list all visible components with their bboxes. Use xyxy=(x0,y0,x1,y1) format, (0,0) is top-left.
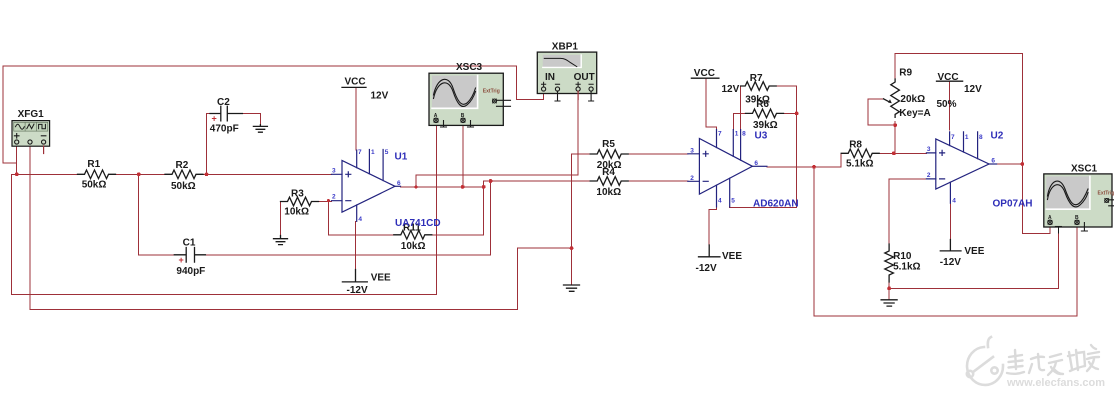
svg-text:7: 7 xyxy=(951,134,955,141)
node U3 output corner R8 xyxy=(812,165,816,169)
svg-text:-12V: -12V xyxy=(940,257,961,268)
wire R9 pot bottom to R8 row xyxy=(894,122,896,154)
XFG1 minus mark xyxy=(41,135,46,137)
wire XSC1 A+ stub down to U2 output row xyxy=(1049,225,1051,234)
wire R11 right up to output node xyxy=(432,187,484,235)
node ground junction mid xyxy=(570,246,574,250)
svg-text:VEE: VEE xyxy=(722,251,742,262)
wire U1 output to feedback tap xyxy=(401,186,484,188)
XFG1 minus terminal stub xyxy=(43,146,45,154)
op-amp U1 plus minus marks xyxy=(346,172,351,201)
resistor R10 5.1k vertical xyxy=(885,244,894,282)
wire C1 right to R4 line riser xyxy=(205,181,490,255)
svg-text:1: 1 xyxy=(735,131,739,138)
node R10 bottom junction xyxy=(887,286,891,290)
svg-text:VCC: VCC xyxy=(694,68,715,79)
XSC1 screen sine trace xyxy=(1048,181,1089,205)
ground mid at R5 riser xyxy=(564,285,580,291)
op-amp U2 input stubs xyxy=(926,153,935,179)
svg-text:AD620AN: AD620AN xyxy=(753,199,799,210)
svg-text:R2: R2 xyxy=(176,160,189,171)
wire input node branch to XSC3 channel A xyxy=(12,123,437,295)
svg-text:4: 4 xyxy=(358,216,362,223)
watermark elecfans logo circle xyxy=(967,337,1003,385)
svg-text:940pF: 940pF xyxy=(176,266,205,277)
wire R10 bottom to ground xyxy=(888,276,890,300)
wire XSC3 channel B down to U1 output xyxy=(462,123,464,187)
svg-text:5.1kΩ: 5.1kΩ xyxy=(846,159,873,170)
wire R5 left to ground riser xyxy=(572,154,591,285)
svg-text:-12V: -12V xyxy=(696,263,717,274)
svg-text:3: 3 xyxy=(332,167,336,174)
svg-text:3: 3 xyxy=(690,147,694,154)
svg-text:+: + xyxy=(212,114,217,124)
svg-text:-12V: -12V xyxy=(347,285,368,296)
svg-text:www.elecfans.com: www.elecfans.com xyxy=(1006,377,1105,389)
wire input node to R1 xyxy=(17,173,78,175)
op-amp U2 top pin stubs 7 1 8 xyxy=(950,132,978,159)
svg-text:10kΩ: 10kΩ xyxy=(596,187,621,198)
op-amp U3 plus minus marks xyxy=(703,151,708,181)
svg-text:U1: U1 xyxy=(395,152,408,163)
wire R7 right to RG riser xyxy=(776,86,796,208)
svg-text:50kΩ: 50kΩ xyxy=(82,179,107,190)
svg-text:ExtTrig: ExtTrig xyxy=(483,88,500,94)
potentiometer R9 20k vertical xyxy=(891,79,900,117)
XBP1 OUT- unconnected stub xyxy=(589,91,594,101)
resistor R6 39k xyxy=(746,109,784,118)
XSC1 channel A minus stub xyxy=(1055,226,1061,228)
svg-text:R7: R7 xyxy=(750,73,763,84)
VCC symbol U1 xyxy=(342,86,366,88)
svg-text:R8: R8 xyxy=(849,139,862,150)
svg-text:+: + xyxy=(179,255,184,265)
wire node A to R2 xyxy=(139,173,165,175)
svg-text:4: 4 xyxy=(952,198,956,205)
op-amp U3 top pin stubs 7 1 8 xyxy=(717,130,741,161)
svg-text:6: 6 xyxy=(991,158,995,165)
svg-text:C1: C1 xyxy=(183,238,196,249)
op-amp U3 AD620AN triangle xyxy=(699,139,752,195)
wire C2 right to ground xyxy=(242,114,260,125)
oscilloscope XSC1 box xyxy=(1044,174,1112,227)
svg-text:8: 8 xyxy=(979,134,983,141)
node A junction R1-R2-C1 xyxy=(137,172,141,176)
wire top rail from input node to XBP1 IN+ xyxy=(3,66,544,100)
svg-text:XSC3: XSC3 xyxy=(456,62,483,73)
ground for C2 xyxy=(253,125,267,132)
op-amp U1 bottom pin stub 4 xyxy=(356,205,358,221)
wire R8 left jog to U3 output corner xyxy=(814,153,841,167)
VEE symbol U3 xyxy=(699,245,720,257)
watermark chinese brand strokes xyxy=(1007,345,1099,375)
svg-text:XSC1: XSC1 xyxy=(1071,163,1098,174)
svg-text:20kΩ: 20kΩ xyxy=(900,94,925,105)
svg-text:R9: R9 xyxy=(899,68,912,79)
XFG1 triangle icon xyxy=(27,124,34,129)
resistor R8 5.1k xyxy=(841,149,879,158)
XSC3 screen sine trace xyxy=(434,79,476,104)
wire U1 VCC bar down to pin7 xyxy=(355,88,357,150)
wire R5 to U3 noninverting input xyxy=(628,153,688,155)
op-amp U2 output stub xyxy=(989,163,997,165)
svg-text:VEE: VEE xyxy=(371,273,391,284)
wire R6 right to RG riser xyxy=(784,112,797,114)
node U1 output to XSC3 B xyxy=(461,185,465,189)
resistor R11 10k feedback xyxy=(394,231,432,240)
wire U1 pin4 down to VEE bar xyxy=(355,221,357,269)
VCC symbol U3 xyxy=(691,77,719,79)
XFG1 terminals xyxy=(15,140,19,144)
node inverting tap U1 xyxy=(327,199,330,202)
svg-text:OP07AH: OP07AH xyxy=(993,199,1033,210)
op-amp U2 bottom pin stub 4 xyxy=(949,182,951,203)
wire XSC1 A- black stub xyxy=(1057,225,1059,234)
XSC1 channel B terminal xyxy=(1075,220,1079,224)
XFG1 square icon xyxy=(39,124,46,128)
svg-text:50kΩ: 50kΩ xyxy=(171,181,196,192)
wire R9 pot top lead xyxy=(894,54,896,79)
XSC3 channel A terminal xyxy=(434,118,438,122)
svg-text:12V: 12V xyxy=(964,84,982,95)
svg-text:UA741CD: UA741CD xyxy=(395,218,441,229)
op-amp U1 UA741CD triangle xyxy=(342,161,395,213)
op-amp U2 plus minus marks xyxy=(940,150,945,179)
wire R7 left down to U3 pin8 xyxy=(740,86,742,130)
svg-text:IN: IN xyxy=(545,72,555,83)
svg-text:U3: U3 xyxy=(755,130,768,141)
svg-text:B: B xyxy=(461,113,465,119)
svg-text:6: 6 xyxy=(397,180,401,187)
svg-text:1: 1 xyxy=(965,134,969,141)
XSC3 channel B terminal xyxy=(461,118,465,122)
capacitor C1 940pF xyxy=(174,248,205,263)
wire node A down to C1 left xyxy=(139,174,175,255)
wire XBP1 OUT+ down to output row xyxy=(577,100,579,176)
svg-text:5.1kΩ: 5.1kΩ xyxy=(893,262,920,273)
node R8 meets pot bottom xyxy=(892,151,896,155)
wire U2 pin4 down to VEE bar xyxy=(949,203,951,239)
svg-text:A: A xyxy=(434,113,438,119)
op-amp U1 input stubs xyxy=(332,174,343,200)
XFG1 plus mark xyxy=(14,134,19,139)
wire R3 right to U1 inverting input xyxy=(318,201,332,203)
svg-text:4: 4 xyxy=(718,198,722,205)
svg-text:6: 6 xyxy=(754,160,758,167)
op-amp U2 OP07AH triangle xyxy=(936,139,989,189)
XSC1 channel B minus stub xyxy=(1081,223,1087,232)
XBP1 plus minus marks xyxy=(542,82,594,86)
bode plotter XBP1 box xyxy=(537,52,596,93)
resistor R3 10k xyxy=(281,197,319,206)
node B junction R2-C2 xyxy=(205,172,209,176)
VEE symbol U2 xyxy=(940,240,961,251)
svg-text:1: 1 xyxy=(371,149,375,156)
svg-text:5: 5 xyxy=(731,198,735,205)
wire U2 output to XSC1 A riser xyxy=(997,163,1023,165)
VEE symbol U1 xyxy=(342,270,367,282)
wire U3 VCC bar down to pin7 xyxy=(706,78,717,129)
wire U3 pin5 REF to RG riser xyxy=(730,206,797,209)
op-amp U3 input stubs xyxy=(688,154,700,182)
wire R6 left down to U3 pin1 xyxy=(733,113,745,129)
svg-text:XBP1: XBP1 xyxy=(552,42,579,53)
node output jog tap xyxy=(414,185,417,188)
svg-text:ExtTrig: ExtTrig xyxy=(1098,191,1114,197)
XBP1 response curve xyxy=(544,58,577,66)
svg-text:R3: R3 xyxy=(291,189,304,200)
wire U2 VCC bar down to pin7 xyxy=(948,81,950,130)
potentiometer R9 wiper arrow xyxy=(884,99,889,102)
op-amp U3 output stub xyxy=(752,165,767,167)
resistor R7 39k xyxy=(741,82,777,91)
wire left rail down from top rail xyxy=(3,66,17,163)
wire R9 top rail to U2 output corner down to XSC1 A xyxy=(895,54,1050,234)
wire R9 wiper loop to pot bottom xyxy=(868,99,895,125)
svg-text:VCC: VCC xyxy=(938,72,959,83)
wire R10 bottom rail to XSC1 A- xyxy=(889,233,1058,288)
XBP1 IN- unconnected stub xyxy=(555,91,560,101)
svg-text:7: 7 xyxy=(718,131,722,138)
wire U1 output jog up to XBP1 OUT+ row xyxy=(416,175,578,187)
svg-text:R1: R1 xyxy=(87,159,100,170)
svg-text:Key=A: Key=A xyxy=(899,108,930,119)
resistor R5 20k xyxy=(590,150,628,159)
ground for R3 xyxy=(274,236,288,245)
svg-text:2: 2 xyxy=(332,194,336,201)
wire inverting node down to R11 xyxy=(328,201,393,235)
resistor R2 50k xyxy=(165,170,203,179)
ground for R10 xyxy=(881,300,897,306)
resistor R4 10k xyxy=(590,177,628,186)
XBP1 screen xyxy=(543,55,581,68)
svg-text:2: 2 xyxy=(927,172,931,179)
svg-text:B: B xyxy=(1075,215,1079,221)
wire R3 left to ground xyxy=(280,202,282,236)
svg-text:U2: U2 xyxy=(991,130,1004,141)
svg-text:R5: R5 xyxy=(602,139,615,150)
wire R8 right to U2 noninverting input xyxy=(879,152,926,154)
svg-text:R4: R4 xyxy=(602,167,615,178)
svg-text:5: 5 xyxy=(385,149,389,156)
XFG1 waveform icon row xyxy=(14,122,48,131)
VCC symbol U2 xyxy=(937,80,963,82)
svg-text:XFG1: XFG1 xyxy=(18,109,45,120)
svg-text:VEE: VEE xyxy=(964,246,984,257)
svg-text:R10: R10 xyxy=(893,251,912,262)
oscilloscope XSC3 box xyxy=(429,73,503,125)
wire node B riser up to C2 xyxy=(207,114,211,175)
svg-text:VCC: VCC xyxy=(345,77,366,88)
wire U2 inverting input to R10 xyxy=(889,179,926,244)
XSC3 channel B minus stub xyxy=(468,121,474,128)
svg-text:A: A xyxy=(1048,215,1052,221)
wire U3 output to corner and bottom rail to XSC1 B xyxy=(767,167,1077,316)
XBP1 terminals IN+ IN- OUT+ OUT- xyxy=(542,87,546,91)
wire R2 to U1 noninverting input xyxy=(203,173,332,175)
XSC1 screen xyxy=(1046,176,1090,209)
op-amp U1 top pin stubs 7 1 5 xyxy=(357,150,383,181)
svg-text:8: 8 xyxy=(742,131,746,138)
node pot bottom wiper junction xyxy=(893,123,897,127)
svg-text:C2: C2 xyxy=(217,97,230,108)
node input junction xyxy=(15,172,19,176)
node R4 row meets C1 riser xyxy=(489,179,493,183)
resistor R1 50k xyxy=(78,170,116,179)
node U2 output meets XSC1 riser xyxy=(1020,162,1024,166)
XSC1 channel A terminal xyxy=(1048,220,1052,224)
XBP1 OUT+ stub xyxy=(577,91,579,99)
node R6 meets RG riser xyxy=(795,112,799,116)
function generator XFG1 box xyxy=(12,121,50,147)
svg-text:7: 7 xyxy=(358,149,362,156)
svg-text:2: 2 xyxy=(690,175,694,182)
wire XBP1 IN+ stub xyxy=(543,91,545,99)
svg-text:R6: R6 xyxy=(756,99,769,110)
XSC1 ext trig terminal xyxy=(1105,199,1109,203)
wire XFG1 plus terminal down to input junction xyxy=(16,146,18,174)
op-amp U3 bottom pin stubs 4 5 xyxy=(717,178,730,207)
svg-text:10kΩ: 10kΩ xyxy=(284,207,309,218)
XSC3 screen xyxy=(432,76,478,109)
svg-text:12V: 12V xyxy=(722,84,740,95)
XSC3 ext trig terminal xyxy=(493,99,497,103)
svg-text:OUT: OUT xyxy=(574,72,595,83)
svg-text:12V: 12V xyxy=(371,90,389,101)
node U1 output feedback tap xyxy=(482,185,486,189)
XSC3 channel A minus stub xyxy=(441,121,447,128)
svg-text:3: 3 xyxy=(927,146,931,153)
wire U3 pin4 down to VEE bar xyxy=(709,207,716,245)
wire R1 to node A junction xyxy=(116,173,139,175)
wire R4 to U3 inverting input xyxy=(628,180,688,182)
wire output node up to R4 row xyxy=(484,181,591,187)
wire XFG1 common terminal down to ground rail xyxy=(29,146,31,309)
op-amp U1 output stub xyxy=(395,185,401,187)
svg-text:470pF: 470pF xyxy=(210,124,239,135)
svg-text:50%: 50% xyxy=(937,99,957,110)
XFG1 sine icon xyxy=(16,124,25,129)
capacitor C2 470pF xyxy=(210,106,242,121)
wire ground junction to bottom ground rail xyxy=(30,248,572,309)
svg-text:10kΩ: 10kΩ xyxy=(401,241,426,252)
